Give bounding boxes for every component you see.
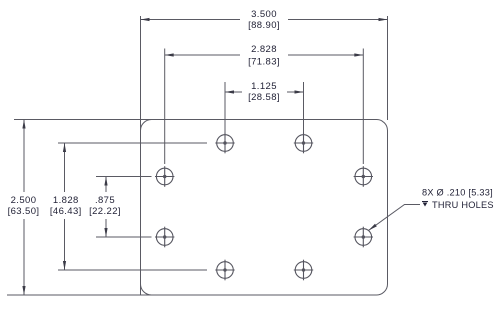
- label 1.125 [28.58]: [248, 81, 280, 103]
- hole H6 lower right: [354, 227, 373, 248]
- hole H4 upper right: [354, 166, 373, 187]
- label 2.500 [63.50]: [8, 195, 40, 217]
- extension line: left hole column up (2.828 dim): [164, 49, 166, 165]
- label 2.828 [71.83]: [248, 44, 280, 68]
- svg-text:1.828: 1.828: [53, 195, 79, 206]
- arrowhead 3.500 left: [141, 18, 150, 21]
- dimension line 1.125: [225, 91, 242, 93]
- hole H5 lower left: [155, 227, 174, 248]
- arrowhead 1.125 right: [295, 90, 304, 93]
- svg-text:[28.58]: [28.58]: [248, 92, 280, 103]
- svg-text:[88.90]: [88.90]: [248, 20, 280, 31]
- svg-text:2.500: 2.500: [11, 195, 37, 206]
- dimension line .875: [105, 177, 107, 193]
- svg-text:[63.50]: [63.50]: [8, 206, 40, 217]
- extension line: top row level left (1.828 dim): [58, 142, 207, 144]
- extension line: right edge extended (3.500 dim): [387, 16, 389, 120]
- dimension line 1.828: [64, 143, 66, 192]
- arrowhead 1.828 bottom: [63, 261, 66, 270]
- svg-text:.875: .875: [95, 195, 115, 206]
- label 3.500 [88.90]: [248, 9, 280, 31]
- hole H2 top row right: [294, 133, 313, 154]
- svg-text:1.125: 1.125: [251, 81, 277, 92]
- extension line: top row right hole up (1.125 dim): [303, 82, 305, 133]
- hole H3 upper left: [155, 166, 174, 187]
- svg-text:[71.83]: [71.83]: [248, 57, 280, 68]
- svg-text:3.500: 3.500: [251, 9, 277, 20]
- extension line: plate top extended left (2.500 dim): [14, 119, 152, 121]
- hole H1 top row left: [215, 133, 234, 154]
- extension line: upper side hole level left (.875 dim): [96, 176, 152, 178]
- arrowhead 2.500 bottom: [22, 286, 25, 295]
- svg-text:[22.22]: [22.22]: [89, 206, 121, 217]
- label .875 [22.22]: [89, 195, 121, 217]
- extension line: left edge extended (3.500 dim): [140, 16, 142, 295]
- svg-text:2.828: 2.828: [251, 44, 277, 55]
- extension line: plate bottom extended left (2.500 dim): [7, 294, 152, 296]
- arrowhead 1.828 top: [63, 143, 66, 152]
- dimension line 2.828: [165, 54, 240, 56]
- note 8X hole callout line 1: [422, 188, 493, 198]
- arrowhead 2.828 right: [354, 53, 363, 56]
- dimension line 3.500: [141, 19, 241, 21]
- svg-text:8X Ø .210 [5.33]: 8X Ø .210 [5.33]: [422, 188, 493, 198]
- extension line: top row left hole up (1.125 dim): [224, 82, 226, 133]
- arrowhead .875 bottom: [104, 228, 107, 237]
- arrowhead 2.828 left: [165, 53, 174, 56]
- dimension line 2.500: [23, 120, 25, 193]
- leader line to hole note: [369, 205, 420, 231]
- arrowhead 2.500 top: [22, 120, 25, 129]
- label 1.828 [46.43]: [50, 195, 82, 217]
- extension line: lower side hole level left (.875 dim): [96, 236, 152, 238]
- arrowhead 1.125 left: [225, 90, 234, 93]
- extension line: bottom row level left (1.828 dim): [58, 269, 207, 271]
- arrowhead .875 top: [104, 177, 107, 186]
- hole H8 bottom row right: [294, 260, 313, 281]
- arrowhead 3.500 right: [379, 18, 388, 21]
- svg-text:THRU HOLES: THRU HOLES: [432, 200, 494, 210]
- note 8X hole callout line 2 with depth symbol: [422, 200, 494, 210]
- extension line: right hole column up (2.828 dim): [362, 49, 364, 165]
- arrowhead leader at hole: [369, 224, 377, 231]
- plate outline: [141, 120, 388, 296]
- hole H7 bottom row left: [215, 260, 234, 281]
- svg-text:[46.43]: [46.43]: [50, 206, 82, 217]
